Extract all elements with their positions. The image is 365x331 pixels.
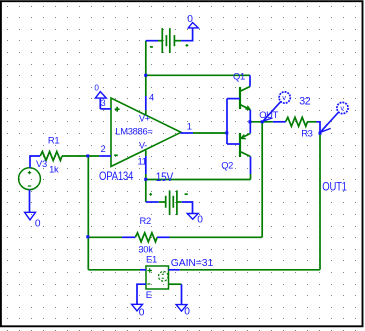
svg-text:2: 2 xyxy=(101,143,106,154)
svg-text:GAIN=31: GAIN=31 xyxy=(171,258,214,269)
svg-text:E1: E1 xyxy=(146,254,157,265)
svg-text:0: 0 xyxy=(187,14,193,25)
svg-text:R1: R1 xyxy=(48,134,59,145)
svg-text:11: 11 xyxy=(138,155,147,166)
svg-text:R3: R3 xyxy=(301,128,312,139)
svg-text:V3: V3 xyxy=(36,158,47,169)
svg-text:3: 3 xyxy=(101,98,106,108)
svg-text:OUT1: OUT1 xyxy=(322,180,347,193)
svg-text:32: 32 xyxy=(299,96,311,108)
svg-text:4: 4 xyxy=(149,92,154,103)
svg-text:15V: 15V xyxy=(156,171,174,184)
svg-text:V-: V- xyxy=(139,140,147,150)
svg-text:V+: V+ xyxy=(139,114,150,124)
svg-text:v: v xyxy=(340,104,344,113)
svg-text:1: 1 xyxy=(187,120,192,131)
svg-text:Q2: Q2 xyxy=(221,159,233,170)
svg-text:0: 0 xyxy=(94,83,99,92)
svg-text:OUT: OUT xyxy=(259,109,278,120)
svg-text:0: 0 xyxy=(35,218,41,229)
svg-text:E: E xyxy=(146,289,152,300)
svg-text:LM3886=: LM3886= xyxy=(115,125,153,136)
svg-text:0: 0 xyxy=(139,307,145,318)
svg-text:Q1: Q1 xyxy=(233,70,245,81)
svg-text:R2: R2 xyxy=(140,215,151,226)
svg-text:0: 0 xyxy=(197,214,203,225)
svg-text:0: 0 xyxy=(184,306,190,317)
svg-text:v: v xyxy=(282,93,286,102)
svg-text:OPA134: OPA134 xyxy=(99,170,133,183)
svg-text:1k: 1k xyxy=(49,164,59,175)
